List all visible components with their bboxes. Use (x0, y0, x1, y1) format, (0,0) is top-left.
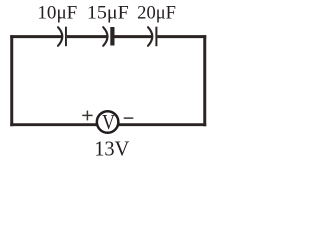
capacitor C2 15μF straight plate (thick) (110, 27, 114, 46)
minus polarity mark (124, 117, 134, 119)
svg-text:13V: 13V (94, 137, 130, 161)
wire right vertical (203, 35, 206, 126)
wire bottom right segment (107, 123, 206, 126)
svg-text:V: V (102, 110, 115, 134)
wire bottom left segment (10, 123, 107, 126)
svg-text:15μF: 15μF (87, 4, 129, 24)
wire top segment 2 (C1 to C2) (67, 35, 107, 38)
svg-text:20μF: 20μF (137, 4, 176, 24)
capacitor C2 15μF curved plate (103, 27, 107, 46)
capacitor C3 20μF curved plate (148, 27, 152, 46)
svg-text:10μF: 10μF (37, 4, 77, 24)
capacitor C3 20μF straight plate (155, 27, 157, 47)
capacitor C1 10μF curved plate (58, 27, 62, 46)
wire top segment 3 (C2 to C3) (114, 35, 152, 38)
wire left vertical (10, 35, 13, 126)
plus polarity mark (82, 111, 92, 121)
capacitor C1 10μF straight plate (65, 27, 67, 47)
wire top segment 1 (left corner to C1) (10, 35, 62, 38)
voltmeter / source circle U1 (97, 111, 119, 133)
wire top segment 4 (C3 to right corner) (157, 35, 206, 38)
